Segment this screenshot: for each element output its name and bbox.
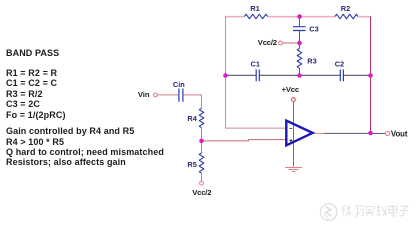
svg-text:R4: R4 bbox=[187, 114, 197, 123]
node junction dot top wire bbox=[297, 14, 302, 19]
svg-text:Vcc/2: Vcc/2 bbox=[258, 38, 277, 47]
note line: R1 = R2 = R bbox=[6, 69, 57, 78]
ground bbox=[285, 168, 302, 172]
note line: Gain controlled by R4 and R5 bbox=[6, 127, 134, 136]
wire left vertical to inverting input bbox=[226, 17, 286, 129]
op-amp inverting input mark bbox=[290, 127, 293, 129]
wire Vcc/2 stub to C3-R3 node bbox=[282, 42, 299, 44]
svg-text:R2: R2 bbox=[341, 4, 350, 13]
terminal Vcc/2 upper bbox=[279, 41, 283, 45]
op-amp non-inverting input mark bbox=[289, 139, 292, 142]
capacitor C3 bbox=[293, 27, 306, 31]
op-amp U1 body fill bbox=[286, 121, 312, 146]
wire top horizontal R1-R2 net bbox=[225, 16, 371, 18]
wire node to non-inverting input bbox=[202, 140, 286, 141]
svg-text:C2: C2 bbox=[335, 60, 344, 69]
svg-text:R5: R5 bbox=[187, 160, 196, 169]
svg-text:R1: R1 bbox=[250, 4, 259, 13]
wire C3-R3 branch vertical bbox=[299, 17, 301, 75]
node junction dot C3/R3 bbox=[297, 41, 302, 46]
note line: R3 = R/2 bbox=[6, 90, 43, 99]
capacitor C2 bbox=[340, 70, 343, 82]
wire middle row C1-C2 net bbox=[226, 74, 371, 76]
watermark logo circle bbox=[320, 204, 337, 221]
wire output to Vout terminal bbox=[371, 133, 386, 135]
svg-text:Vin: Vin bbox=[138, 90, 150, 99]
resistor R3 bbox=[297, 49, 302, 69]
resistor R5 bbox=[199, 153, 204, 173]
wire Vin to Cin to R4 bbox=[157, 95, 201, 108]
note line: BAND PASS bbox=[6, 49, 59, 58]
note line: C1 = C2 = C bbox=[6, 79, 57, 88]
capacitor Cin bbox=[179, 89, 183, 102]
wire +Vcc supply vertical bbox=[293, 102, 295, 167]
note line: C3 = 2C bbox=[6, 100, 40, 109]
terminal +Vcc bbox=[292, 98, 296, 102]
resistor R2 bbox=[335, 14, 358, 19]
node junction dot left-middle bbox=[223, 73, 228, 78]
node junction dot R4/R5 bbox=[199, 139, 204, 144]
node junction dot middle row center bbox=[297, 73, 302, 78]
svg-text:R3: R3 bbox=[307, 56, 316, 65]
wire op-amp output dark segment bbox=[324, 132, 371, 134]
svg-text:Cin: Cin bbox=[173, 80, 185, 89]
capacitor C1 bbox=[256, 70, 259, 82]
note line: R4 > 100 * R5 bbox=[6, 138, 64, 147]
wire R4 to node to R5 bbox=[201, 128, 203, 182]
note line: Resistors; also affects gain bbox=[6, 158, 126, 167]
terminal Vcc/2 lower bbox=[200, 181, 204, 185]
terminal Vout bbox=[386, 131, 390, 135]
node junction dot right-middle bbox=[368, 73, 373, 78]
terminal Vin bbox=[154, 93, 158, 97]
svg-text:C3: C3 bbox=[309, 24, 318, 33]
wire op-amp output bbox=[314, 132, 325, 134]
op-amp U1 outline bbox=[286, 121, 312, 146]
svg-text:+Vcc: +Vcc bbox=[282, 85, 300, 94]
wire right vertical bbox=[370, 17, 372, 134]
svg-text:C1: C1 bbox=[251, 60, 260, 69]
svg-text:Vcc/2: Vcc/2 bbox=[192, 188, 211, 197]
resistor R4 bbox=[199, 108, 204, 127]
note line: Q hard to control; need mismatched bbox=[6, 148, 164, 157]
resistor R1 bbox=[245, 14, 268, 19]
watermark text 张飞实战电子 bbox=[342, 205, 408, 217]
svg-text:Vout: Vout bbox=[391, 130, 408, 139]
note line: Fo = 1/(2pRC) bbox=[6, 111, 66, 120]
node junction dot output bbox=[368, 131, 373, 136]
